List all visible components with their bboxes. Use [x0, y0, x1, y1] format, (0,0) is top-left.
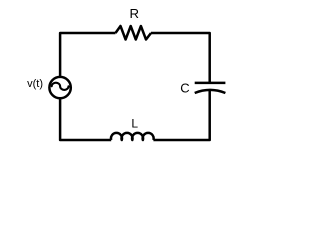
svg-text:R: R [130, 6, 140, 21]
capacitor C bottom curved plate [195, 90, 226, 93]
svg-text:C: C [180, 81, 189, 96]
wire top-left (source top to resistor left lead) [60, 33, 115, 77]
source sine symbol [52, 83, 69, 90]
svg-text:L: L [131, 117, 138, 131]
source v(t) circle [49, 77, 70, 98]
inductor L coils [111, 133, 154, 140]
capacitor C top plate [195, 82, 226, 85]
resistor R zigzag [116, 26, 152, 40]
svg-text:v(t): v(t) [27, 78, 43, 90]
wire bottom-left (inductor left lead to source bottom) [60, 99, 111, 140]
wire bottom-right (capacitor bottom to inductor right lead) [153, 91, 209, 140]
wire top-right (resistor right lead to capacitor top) [151, 33, 210, 83]
